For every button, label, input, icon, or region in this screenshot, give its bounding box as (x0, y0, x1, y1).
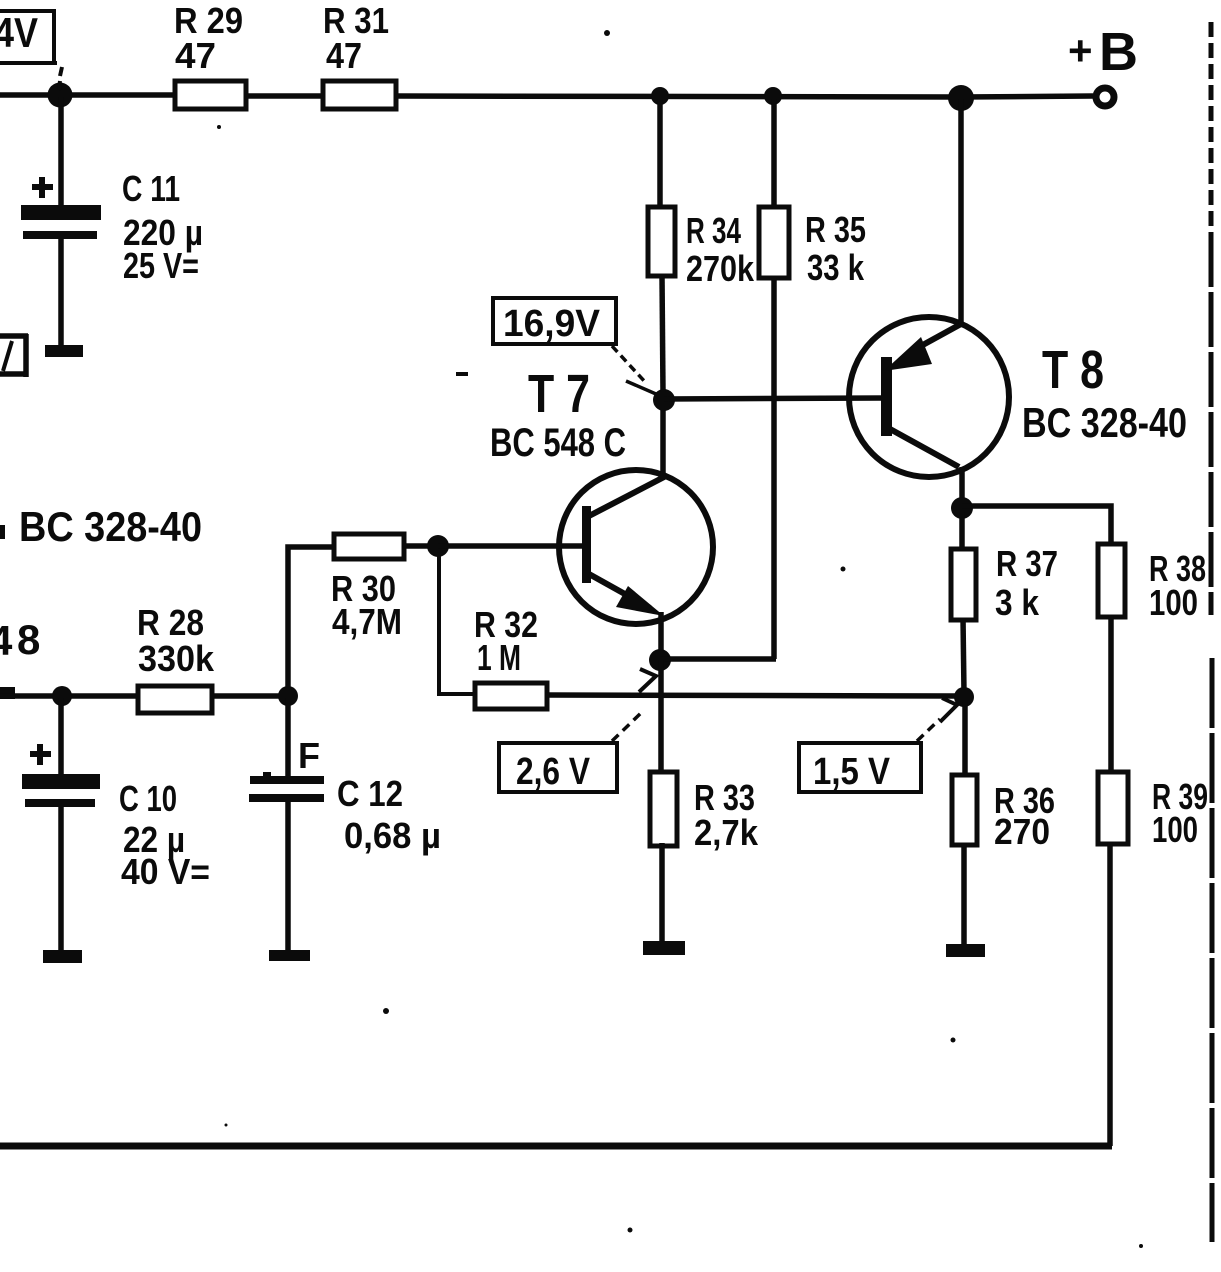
svg-text:40 V=: 40 V= (121, 851, 210, 892)
node junction R35/rail (764, 87, 782, 105)
resistor R35 (759, 207, 789, 278)
voltage label 1,5V box (799, 743, 921, 793)
wire C11 top lead (58, 97, 64, 207)
resistor R32 (475, 683, 547, 709)
wire R38 to R39 (1108, 615, 1114, 773)
resistor R28 (138, 686, 212, 713)
ground R33 (643, 941, 685, 955)
resistor R36 (952, 775, 977, 845)
node junction R34/rail (651, 87, 669, 105)
svg-text:270: 270 (994, 811, 1050, 852)
svg-text:2,6 V: 2,6 V (516, 751, 591, 793)
node junction C11/rail (48, 83, 73, 108)
svg-text:100: 100 (1152, 809, 1198, 850)
resistor R37 (951, 549, 976, 620)
svg-text:B: B (1099, 22, 1138, 82)
transistor T8 circle (849, 317, 1009, 477)
node junction T7 collector/R34/T8 base (653, 389, 675, 411)
node junction R28/C12/R30 (278, 686, 298, 706)
svg-text:100: 100 (1149, 582, 1198, 623)
voltage label 16,9V box (493, 298, 616, 345)
ground R36 (946, 944, 985, 957)
wire R32 long feedback to R36/R37 node (547, 695, 960, 696)
wire T8 collector to R38 (962, 506, 1111, 546)
transistor T8 collector diagonal (890, 429, 959, 467)
svg-text:C 12: C 12 (337, 773, 403, 814)
capacitor C11 (21, 205, 101, 239)
wire bottom return (0, 1143, 1112, 1150)
pointer arrow 1,5V to node (917, 698, 957, 741)
wire T7 base (438, 543, 584, 549)
resistor R33 (650, 772, 677, 846)
wire T7 emitter to R35 line (660, 656, 776, 662)
wire R35 top lead (771, 99, 777, 206)
box input label 4V top-left (0, 9, 62, 90)
svg-text:R 35: R 35 (805, 209, 866, 250)
ground C10 (43, 950, 82, 963)
wire rail from R31 to +B terminal (396, 96, 1093, 97)
svg-text:330k: 330k (138, 638, 215, 679)
svg-text:R 28: R 28 (137, 602, 204, 643)
wire C11 bottom lead (58, 239, 64, 347)
svg-text:BC 328-40: BC 328-40 (1022, 399, 1187, 446)
capacitor C11 polarity plus (32, 177, 53, 198)
resistor R29 (175, 81, 246, 109)
wire R36 top lead (962, 702, 968, 774)
wire R35 bottom lead long (771, 278, 777, 659)
transistor T8 emitter arrow (884, 337, 932, 371)
wire top supply rail left segment (0, 92, 173, 98)
svg-text:BC 548 C: BC 548 C (490, 421, 626, 465)
svg-text:4,7M: 4,7M (332, 601, 402, 642)
svg-text:4V: 4V (0, 9, 38, 56)
svg-text:T 8: T 8 (1042, 340, 1104, 400)
wire R37 top lead (959, 512, 965, 548)
svg-text:F: F (298, 735, 320, 776)
svg-text:0,68 µ: 0,68 µ (344, 815, 441, 856)
wire C12 top lead (285, 698, 291, 777)
capacitor C12 (249, 772, 324, 802)
svg-text:270k: 270k (686, 248, 755, 289)
scan noise dots (217, 30, 1143, 1248)
wire R32 riser (439, 550, 474, 694)
svg-text:47: 47 (175, 35, 216, 76)
svg-text:T 7: T 7 (528, 364, 590, 424)
svg-text:R 34: R 34 (686, 210, 741, 251)
capacitor C10 (22, 774, 100, 807)
wire R37 bottom lead (963, 618, 964, 692)
transistor T8 base bar (881, 357, 892, 436)
wire T8 base (664, 398, 884, 399)
wire R34 bottom lead (662, 276, 663, 392)
transistor T7 circle (559, 470, 713, 624)
node junction T7 emitter (649, 649, 671, 671)
resistor R38 (1098, 544, 1125, 617)
svg-text:16,9V: 16,9V (503, 303, 601, 345)
wire R39 bottom lead (1107, 842, 1113, 1146)
box partial label Y at left edge (0, 334, 28, 377)
node junction C10/input (52, 686, 72, 706)
wire R28 to node (212, 693, 290, 699)
voltage label 2,6V box (499, 743, 617, 793)
svg-text:C 11: C 11 (122, 168, 180, 209)
transistor T8 emitter diagonal (910, 324, 961, 352)
transistor T7 collector diagonal (589, 476, 666, 516)
wire T8 emitter lead (958, 99, 964, 324)
wire R34 top lead (657, 99, 663, 206)
resistor R39 (1098, 772, 1128, 844)
ground C11 (45, 345, 83, 357)
node junction R37/R36/feedback (954, 687, 974, 707)
transistor T7 emitter arrow (616, 586, 664, 616)
wire R33 bottom lead (659, 843, 665, 943)
svg-text:47: 47 (326, 35, 362, 76)
wire R36 bottom lead (961, 843, 967, 946)
wire C12 bottom lead (285, 800, 291, 952)
wire T7 collector lead (660, 402, 666, 474)
svg-text:+: + (1068, 27, 1093, 74)
svg-text:1,5 V: 1,5 V (813, 751, 891, 793)
terminal +B open circle (1096, 88, 1114, 106)
node junction T8 collector/R37/R38 (951, 497, 973, 519)
svg-text:4: 4 (0, 617, 13, 664)
resistor R34 (648, 207, 675, 276)
transistor T7 base bar (582, 506, 591, 583)
node junction R30/base/R32 (427, 535, 449, 557)
wire C10 bottom lead (58, 807, 64, 952)
wire input stub left (0, 687, 15, 699)
svg-text:C 10: C 10 (119, 778, 177, 819)
svg-text:33 k: 33 k (807, 247, 865, 288)
svg-text:8: 8 (17, 616, 40, 663)
svg-text:2,7k: 2,7k (694, 812, 759, 853)
wire R30 riser from node (288, 547, 332, 690)
resistor R31 (323, 81, 396, 109)
wire R30 to base node (404, 543, 440, 549)
svg-text:1 M: 1 M (477, 637, 521, 678)
wire between R29 and R31 (248, 93, 321, 99)
transistor T7 emitter diagonal (589, 574, 650, 608)
capacitor C10 polarity plus (30, 744, 51, 765)
pointer arrow 2,6V to emitter node (612, 669, 656, 741)
svg-text:25 V=: 25 V= (123, 245, 199, 286)
wire C10 top lead (58, 698, 64, 776)
svg-text:3 k: 3 k (995, 582, 1040, 623)
ground C12 (269, 950, 310, 961)
pointer line 16,9V to node (612, 346, 656, 394)
scan border right edge (1211, 22, 1212, 1242)
svg-text:R 37: R 37 (996, 543, 1058, 584)
resistor R30 (334, 534, 404, 559)
wire T8 collector lead (959, 467, 965, 500)
svg-text:BC 328-40: BC 328-40 (19, 503, 202, 550)
wire T7 emitter lead (658, 612, 664, 652)
wire R33 top lead (658, 660, 664, 772)
node junction T8 emitter/rail (948, 85, 974, 111)
